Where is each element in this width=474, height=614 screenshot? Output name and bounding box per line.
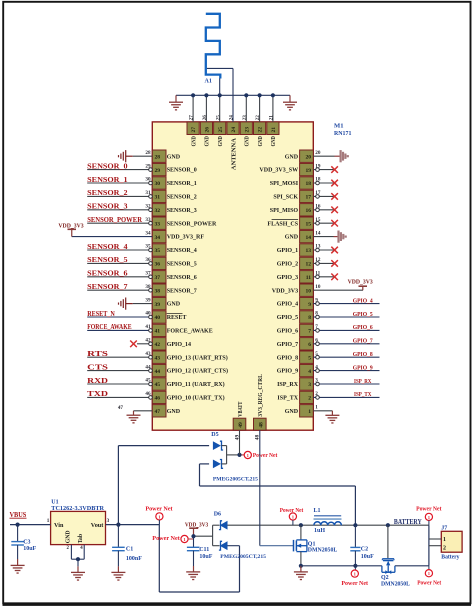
svg-text:35: 35 <box>155 248 161 254</box>
svg-text:SPI_SCK: SPI_SCK <box>273 195 298 201</box>
svg-text:GPIO_9: GPIO_9 <box>353 364 374 371</box>
svg-text:C3: C3 <box>23 539 30 545</box>
svg-text:18: 18 <box>306 181 312 187</box>
svg-text:ISP_RX: ISP_RX <box>354 378 371 385</box>
svg-text:Q2: Q2 <box>381 575 389 581</box>
svg-text:SENSOR_0: SENSOR_0 <box>167 168 197 174</box>
svg-text:SENSOR_4: SENSOR_4 <box>167 248 197 254</box>
svg-text:SENSOR_5: SENSOR_5 <box>87 256 128 264</box>
svg-text:DMN2050L: DMN2050L <box>308 548 338 554</box>
svg-text:SENSOR_7: SENSOR_7 <box>167 288 197 294</box>
svg-text:3: 3 <box>308 382 311 388</box>
svg-text:GND: GND <box>65 530 71 543</box>
svg-text:ISP_TX: ISP_TX <box>277 396 298 402</box>
svg-text:32: 32 <box>155 208 161 214</box>
svg-text:VDD_3V3: VDD_3V3 <box>185 521 208 528</box>
svg-text:29: 29 <box>155 168 161 174</box>
svg-text:GND: GND <box>271 136 277 147</box>
svg-text:10uF: 10uF <box>23 546 36 552</box>
svg-text:22: 22 <box>255 115 261 121</box>
svg-text:SPI_MISO: SPI_MISO <box>270 208 299 214</box>
svg-text:Q1: Q1 <box>308 541 316 547</box>
svg-text:17: 17 <box>306 195 312 201</box>
svg-text:GND: GND <box>218 136 224 147</box>
svg-text:28: 28 <box>145 150 151 156</box>
svg-text:VDD_3V3_RF: VDD_3V3_RF <box>167 235 205 241</box>
svg-text:39: 39 <box>145 297 151 303</box>
svg-text:38: 38 <box>145 284 151 290</box>
svg-text:9: 9 <box>308 302 311 308</box>
svg-text:L1: L1 <box>314 508 321 514</box>
svg-text:GPIO_5: GPIO_5 <box>353 311 374 318</box>
svg-text:FORCE_AWAKE: FORCE_AWAKE <box>167 329 213 335</box>
svg-text:GND: GND <box>167 302 181 308</box>
svg-text:11: 11 <box>306 275 311 281</box>
svg-text:31: 31 <box>155 195 161 201</box>
svg-text:1: 1 <box>315 405 318 411</box>
svg-text:41: 41 <box>145 324 151 330</box>
svg-text:100nF: 100nF <box>126 556 142 562</box>
svg-text:PMEG2005CT,215: PMEG2005CT,215 <box>220 554 266 560</box>
svg-text:SPI_MOSI: SPI_MOSI <box>270 181 299 187</box>
svg-text:37: 37 <box>155 275 161 281</box>
svg-text:4: 4 <box>308 369 311 375</box>
svg-text:PMEG2005CT,215: PMEG2005CT,215 <box>213 477 258 483</box>
svg-text:44: 44 <box>145 364 151 370</box>
svg-text:1: 1 <box>443 537 446 543</box>
svg-text:Tab: Tab <box>78 534 84 543</box>
svg-text:GND: GND <box>285 409 299 415</box>
svg-text:C2: C2 <box>361 546 368 552</box>
svg-text:SENSOR_POWER: SENSOR_POWER <box>87 216 143 224</box>
svg-text:33: 33 <box>155 221 161 227</box>
svg-text:FLASH_CS: FLASH_CS <box>267 221 298 227</box>
svg-text:22: 22 <box>258 127 264 133</box>
svg-text:RESET: RESET <box>167 315 187 321</box>
svg-text:20: 20 <box>306 154 312 160</box>
svg-text:DMN2050L: DMN2050L <box>381 582 410 588</box>
svg-text:46: 46 <box>155 396 161 402</box>
svg-text:RESET_N: RESET_N <box>87 310 115 318</box>
svg-text:23: 23 <box>244 127 250 133</box>
svg-text:GND: GND <box>285 154 299 160</box>
svg-text:SENSOR_3: SENSOR_3 <box>167 208 197 214</box>
svg-text:SENSOR_7: SENSOR_7 <box>87 283 128 291</box>
svg-text:16: 16 <box>306 208 312 214</box>
svg-text:GND: GND <box>285 235 299 241</box>
svg-text:14: 14 <box>306 235 312 241</box>
svg-text:29: 29 <box>145 163 151 169</box>
svg-text:27: 27 <box>191 127 197 133</box>
svg-text:10: 10 <box>315 284 321 290</box>
svg-text:Power Net: Power Net <box>416 507 441 513</box>
svg-text:Power Net: Power Net <box>145 506 172 512</box>
svg-text:49: 49 <box>238 422 244 428</box>
svg-text:20: 20 <box>315 150 321 156</box>
svg-text:TXD: TXD <box>87 390 108 398</box>
svg-text:CTS: CTS <box>87 363 108 371</box>
svg-text:46: 46 <box>145 391 151 397</box>
svg-text:GPIO_11 (UART_RX): GPIO_11 (UART_RX) <box>167 381 225 388</box>
svg-text:21: 21 <box>269 115 275 121</box>
svg-text:43: 43 <box>155 355 161 361</box>
svg-text:36: 36 <box>155 262 161 268</box>
svg-text:SENSOR_3: SENSOR_3 <box>87 203 128 211</box>
svg-text:1: 1 <box>308 409 311 415</box>
svg-text:32: 32 <box>145 204 151 210</box>
svg-text:21: 21 <box>271 127 277 133</box>
svg-text:30: 30 <box>155 181 161 187</box>
svg-text:GPIO_5: GPIO_5 <box>277 315 298 321</box>
svg-text:10uF: 10uF <box>199 554 212 560</box>
svg-text:VBATT: VBATT <box>238 402 244 417</box>
svg-text:24: 24 <box>229 115 235 121</box>
svg-text:27: 27 <box>189 115 195 121</box>
svg-text:ANTENNA: ANTENNA <box>231 137 237 170</box>
svg-text:42: 42 <box>155 342 161 348</box>
svg-text:1uH: 1uH <box>314 528 325 534</box>
svg-text:31: 31 <box>145 190 151 196</box>
svg-text:37: 37 <box>145 271 151 277</box>
svg-text:34: 34 <box>155 235 161 241</box>
svg-text:Power Net: Power Net <box>417 581 441 587</box>
svg-text:GND: GND <box>167 409 181 415</box>
svg-text:GPIO_7: GPIO_7 <box>353 338 374 345</box>
svg-text:RXD: RXD <box>87 377 108 385</box>
svg-text:U1: U1 <box>51 499 58 505</box>
svg-text:GPIO_7: GPIO_7 <box>277 342 298 348</box>
svg-text:23: 23 <box>242 115 248 121</box>
svg-text:3V3_REG_CTRL: 3V3_REG_CTRL <box>258 374 264 417</box>
svg-text:2: 2 <box>443 545 446 551</box>
svg-text:3: 3 <box>107 518 110 524</box>
svg-text:VDD_3V3: VDD_3V3 <box>58 223 83 230</box>
svg-text:GPIO_10 (UART_TX): GPIO_10 (UART_TX) <box>167 395 225 402</box>
svg-text:SENSOR_5: SENSOR_5 <box>167 262 197 268</box>
svg-text:25: 25 <box>215 115 221 121</box>
svg-text:A1: A1 <box>205 78 212 84</box>
svg-text:GPIO_9: GPIO_9 <box>277 369 298 375</box>
svg-text:Battery: Battery <box>441 555 459 561</box>
svg-text:40: 40 <box>155 315 161 321</box>
svg-text:GPIO_4: GPIO_4 <box>353 297 374 304</box>
svg-text:M1: M1 <box>334 123 344 130</box>
svg-text:SENSOR_1: SENSOR_1 <box>87 176 128 184</box>
svg-text:ISP_TX: ISP_TX <box>354 391 371 398</box>
svg-text:SENSOR_6: SENSOR_6 <box>87 270 128 278</box>
svg-text:19: 19 <box>306 168 312 174</box>
svg-text:D5: D5 <box>211 432 218 438</box>
svg-text:44: 44 <box>155 369 161 375</box>
svg-text:C11: C11 <box>199 547 209 553</box>
svg-text:GND: GND <box>191 136 197 147</box>
svg-text:GPIO_2: GPIO_2 <box>277 262 298 268</box>
svg-text:42: 42 <box>145 338 151 344</box>
svg-text:45: 45 <box>145 378 151 384</box>
svg-text:SENSOR_4: SENSOR_4 <box>87 243 128 251</box>
svg-text:41: 41 <box>155 329 161 335</box>
svg-text:45: 45 <box>155 382 161 388</box>
svg-text:36: 36 <box>145 257 151 263</box>
svg-text:28: 28 <box>155 154 161 160</box>
svg-text:14: 14 <box>315 230 321 236</box>
svg-text:38: 38 <box>155 288 161 294</box>
svg-text:26: 26 <box>205 127 211 133</box>
svg-text:15: 15 <box>306 221 312 227</box>
svg-text:RN171: RN171 <box>334 130 351 137</box>
svg-text:C1: C1 <box>126 546 133 552</box>
svg-text:6: 6 <box>308 342 311 348</box>
svg-text:Power Net: Power Net <box>152 536 180 542</box>
svg-text:GND: GND <box>258 136 264 147</box>
svg-text:GPIO_12 (UART_CTS): GPIO_12 (UART_CTS) <box>167 368 228 375</box>
svg-text:GND: GND <box>245 136 251 147</box>
svg-text:SENSOR_2: SENSOR_2 <box>87 189 128 197</box>
svg-text:D6: D6 <box>214 512 221 518</box>
svg-text:VDD_3V3: VDD_3V3 <box>348 278 373 285</box>
svg-text:2: 2 <box>308 396 311 402</box>
svg-text:GND: GND <box>205 136 211 147</box>
svg-text:7: 7 <box>308 329 311 335</box>
svg-text:GPIO_6: GPIO_6 <box>353 324 374 331</box>
svg-text:39: 39 <box>155 302 161 308</box>
svg-text:35: 35 <box>145 244 151 250</box>
svg-text:GPIO_3: GPIO_3 <box>277 275 298 281</box>
svg-text:Power Net: Power Net <box>341 581 368 587</box>
svg-text:33: 33 <box>145 217 151 223</box>
svg-text:43: 43 <box>145 351 151 357</box>
svg-text:VDD_3V3: VDD_3V3 <box>272 288 298 294</box>
svg-text:47: 47 <box>118 405 124 411</box>
svg-text:25: 25 <box>218 127 224 133</box>
svg-text:J7: J7 <box>441 525 447 531</box>
svg-text:24: 24 <box>231 127 237 133</box>
svg-text:SENSOR_1: SENSOR_1 <box>167 181 197 187</box>
svg-text:10uF: 10uF <box>361 554 374 560</box>
svg-text:SENSOR_6: SENSOR_6 <box>167 275 197 281</box>
svg-text:Vout: Vout <box>91 522 104 529</box>
svg-text:GND: GND <box>167 154 181 160</box>
svg-text:SENSOR_POWER: SENSOR_POWER <box>167 221 217 227</box>
svg-text:40: 40 <box>145 311 151 317</box>
svg-text:RTS: RTS <box>87 350 108 358</box>
svg-text:Power Net: Power Net <box>280 508 304 514</box>
svg-text:48: 48 <box>258 422 264 428</box>
svg-text:26: 26 <box>202 115 208 121</box>
svg-text:GPIO_14: GPIO_14 <box>167 342 191 348</box>
svg-text:12: 12 <box>306 262 312 268</box>
svg-text:13: 13 <box>306 248 312 254</box>
svg-text:5: 5 <box>308 355 311 361</box>
svg-text:VDD_3V3_SW: VDD_3V3_SW <box>259 168 298 174</box>
svg-text:SENSOR_0: SENSOR_0 <box>87 162 128 170</box>
svg-text:SENSOR_2: SENSOR_2 <box>167 195 197 201</box>
svg-text:GPIO_6: GPIO_6 <box>277 329 298 335</box>
svg-text:BATTERY: BATTERY <box>394 519 422 526</box>
svg-text:ISP_RX: ISP_RX <box>277 382 299 388</box>
svg-text:FORCE_AWAKE: FORCE_AWAKE <box>87 323 132 331</box>
svg-text:47: 47 <box>155 409 161 415</box>
svg-text:30: 30 <box>145 177 151 183</box>
svg-text:10: 10 <box>306 288 312 294</box>
svg-text:Power Net: Power Net <box>253 453 277 459</box>
svg-text:Vin: Vin <box>54 522 64 529</box>
svg-text:1: 1 <box>47 518 50 524</box>
svg-text:GPIO_8: GPIO_8 <box>277 355 298 361</box>
svg-text:GPIO_13 (UART_RTS): GPIO_13 (UART_RTS) <box>167 354 228 361</box>
svg-text:GPIO_1: GPIO_1 <box>277 248 298 254</box>
svg-text:GPIO_4: GPIO_4 <box>277 302 298 308</box>
svg-text:34: 34 <box>145 230 151 236</box>
svg-text:GPIO_8: GPIO_8 <box>353 351 374 358</box>
svg-text:8: 8 <box>308 315 311 321</box>
